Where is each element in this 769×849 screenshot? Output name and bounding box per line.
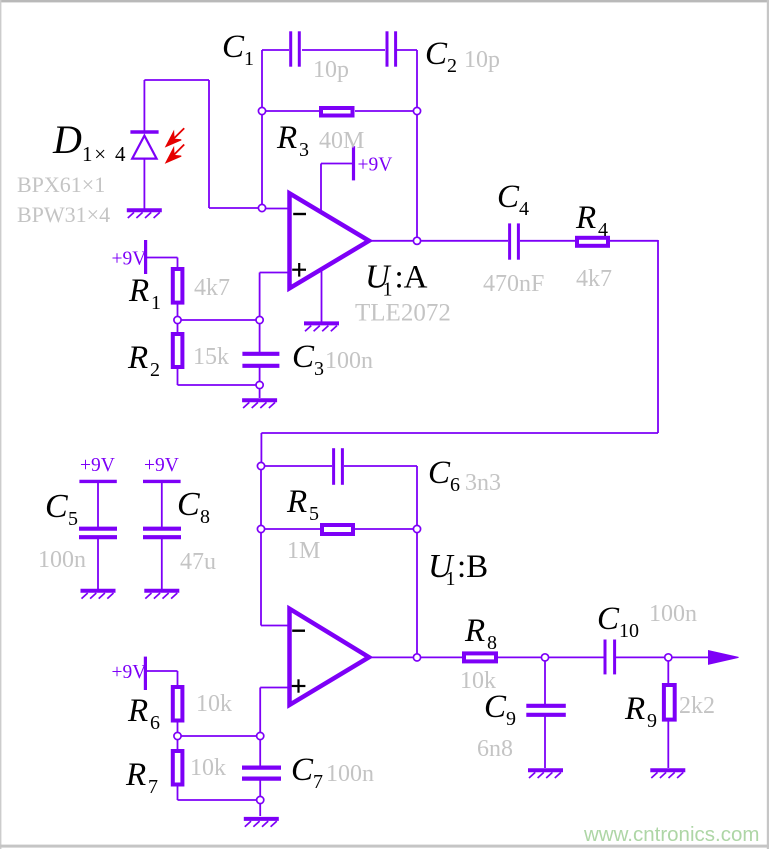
- wire: +9V to op-amp top: [321, 163, 352, 165]
- junction node C3 bottom: [256, 381, 263, 388]
- svg-text:40M: 40M: [319, 128, 364, 154]
- svg-text:3n3: 3n3: [465, 470, 501, 496]
- resistor R2 (15k) body: [173, 334, 183, 367]
- wire: R9 bottom to ground: [667, 720, 669, 768]
- wire: photodiode top horizontal: [144, 79, 209, 81]
- svg-text:BPW31×4: BPW31×4: [17, 202, 110, 227]
- wire: R8 to C9 node: [497, 656, 604, 658]
- junction node C6 left: [257, 462, 264, 469]
- svg-text:5: 5: [309, 503, 319, 525]
- svg-text:C: C: [291, 752, 314, 788]
- junction node op-amp A output: [413, 237, 420, 244]
- wire: photodiode cathode up: [143, 80, 145, 131]
- frame border left: [0, 0, 1, 849]
- photodiode D1x4 triangle: [132, 136, 156, 159]
- wire: divider node B up to plus input: [259, 688, 261, 737]
- junction node R5 right: [413, 525, 420, 532]
- junction node C7 bottom: [257, 796, 264, 803]
- ground under C7: [244, 817, 279, 821]
- svg-text:R: R: [624, 691, 645, 727]
- output arrow: [709, 651, 739, 665]
- svg-text:D: D: [52, 117, 82, 162]
- wire: C5 top: [97, 481, 99, 528]
- wire: top feedback row right segment: [397, 49, 417, 51]
- +9V power bar for C5: [79, 480, 116, 483]
- wire: divider node down to C3: [259, 320, 261, 352]
- junction node R9: [665, 654, 672, 661]
- svg-text:1× 4: 1× 4: [82, 142, 127, 166]
- svg-text:7: 7: [148, 776, 158, 798]
- svg-text:R: R: [128, 273, 149, 309]
- svg-text:BPX61×1: BPX61×1: [17, 172, 105, 197]
- junction node R1-R2: [174, 316, 181, 323]
- wire: R5 row right: [354, 528, 417, 530]
- svg-text:9: 9: [506, 708, 516, 730]
- red light arrow 2: [174, 145, 184, 155]
- resistor R4 (4k7) body: [577, 238, 608, 246]
- svg-text:C: C: [45, 488, 68, 525]
- svg-text:100n: 100n: [38, 547, 86, 573]
- junction node R3 row right: [413, 107, 420, 114]
- wire: +9V bar to R1 top: [147, 257, 178, 259]
- svg-text:+9V: +9V: [112, 662, 147, 683]
- wire: divider row B to C7 node: [178, 735, 261, 737]
- svg-text:8: 8: [200, 506, 210, 528]
- svg-text:C: C: [484, 689, 507, 725]
- op-amp U1:A plus pin mark: [292, 269, 306, 271]
- svg-text:www.cntronics.com: www.cntronics.com: [583, 823, 759, 846]
- svg-text:C: C: [497, 179, 520, 215]
- svg-text:C: C: [177, 486, 200, 523]
- svg-text:4: 4: [598, 219, 608, 241]
- svg-text::A: :A: [395, 260, 428, 296]
- wire: C6 row left: [261, 465, 332, 467]
- wire: C5 bottom to ground: [97, 537, 99, 589]
- svg-text:1: 1: [446, 568, 456, 590]
- svg-text:10: 10: [619, 620, 639, 642]
- wire: C9 bottom to ground: [544, 715, 546, 768]
- svg-text:6n8: 6n8: [477, 736, 513, 762]
- svg-text:2: 2: [447, 55, 457, 77]
- svg-text:R: R: [276, 120, 297, 156]
- ground under C5: [81, 589, 116, 593]
- junction node R3 row left: [258, 107, 265, 114]
- svg-text:100n: 100n: [649, 601, 697, 627]
- svg-text:6: 6: [450, 474, 460, 496]
- ground under op-amp U1:A: [304, 321, 339, 325]
- svg-text:15k: 15k: [193, 344, 229, 370]
- +9V power bar for R6: [144, 657, 147, 690]
- ground under photodiode: [127, 208, 162, 212]
- ground under C3: [242, 398, 277, 402]
- svg-text:6: 6: [150, 712, 160, 734]
- op-amp U1:B triangle: [290, 609, 370, 705]
- wire: R3 row left segment: [262, 110, 319, 112]
- svg-text:R: R: [575, 200, 596, 236]
- svg-text:R: R: [464, 613, 485, 649]
- svg-text:R: R: [127, 340, 148, 376]
- wire: long horizontal to stage 2 input: [261, 432, 658, 434]
- wire: right vertical C2 row down to output node: [416, 50, 418, 241]
- capacitor C5 (100n) plates: [79, 527, 117, 531]
- svg-text:C: C: [425, 36, 448, 72]
- svg-text:R: R: [286, 484, 307, 520]
- wire: +9V bar to R6 top: [147, 670, 178, 672]
- svg-text:1M: 1M: [287, 538, 320, 564]
- wire: node A to op-amp inverting input: [262, 208, 290, 210]
- ground under C9: [528, 768, 563, 772]
- wire: left vertical C6 to R5: [260, 466, 262, 529]
- svg-text:10p: 10p: [464, 47, 500, 73]
- wire: op-amp U1:A bottom to ground: [321, 269, 323, 323]
- wire: C8 bottom to ground: [161, 537, 163, 589]
- ground under R9: [650, 768, 685, 772]
- wire: R2 bottom right to C3 ground node: [178, 384, 260, 386]
- svg-text:R: R: [127, 693, 148, 729]
- svg-text:4k7: 4k7: [576, 266, 612, 292]
- op-amp U1:B minus pin mark: [292, 630, 305, 632]
- capacitor C7 (100n) plates: [242, 765, 281, 769]
- junction node op-amp B output: [413, 654, 420, 661]
- wire: to op-amp B inverting input: [261, 625, 290, 627]
- wire: C8 top: [161, 481, 163, 528]
- wire: right vertical drop to stage 2: [657, 240, 659, 433]
- capacitor C2 (10p) symbol: [386, 31, 389, 66]
- op-amp U1:B plus pin mark: [292, 685, 306, 687]
- svg-text:1: 1: [151, 292, 161, 314]
- wire: R9 node down: [667, 657, 669, 684]
- resistor R6 (10k) body: [173, 687, 183, 721]
- wire: into node A: [209, 207, 262, 209]
- capacitor C9 (6n8) plates: [526, 704, 566, 708]
- wire: R1 bottom to divider node: [177, 305, 179, 334]
- +9V power bar for U1:A: [352, 146, 355, 180]
- wire: op-amp B output to R8: [369, 656, 466, 658]
- resistor R3 (40M) body: [321, 108, 353, 116]
- svg-text:C: C: [222, 29, 245, 65]
- svg-text:2k2: 2k2: [679, 693, 715, 719]
- svg-text:7: 7: [313, 771, 323, 793]
- wire: R4 to right corner: [609, 240, 658, 242]
- svg-text:4k7: 4k7: [194, 275, 230, 301]
- +9V power bar for R1: [144, 240, 147, 274]
- svg-text:R: R: [125, 757, 146, 793]
- wire: left vertical C1 row to node A: [261, 50, 263, 208]
- wire: C9 node down: [544, 657, 546, 704]
- wire: C10 to output node: [616, 656, 710, 658]
- svg-text:3: 3: [299, 139, 309, 161]
- svg-text:9: 9: [647, 710, 657, 732]
- svg-text:10k: 10k: [190, 755, 226, 781]
- svg-text:TLE2072: TLE2072: [355, 300, 451, 327]
- resistor R8 (10k) body: [464, 653, 496, 661]
- wire: top feedback row left segment: [262, 49, 289, 51]
- wire: right vertical C6 to R5: [416, 466, 418, 529]
- svg-text:+9V: +9V: [80, 455, 115, 476]
- wire: R6 bottom to divider node B: [177, 721, 179, 750]
- wire: divider node B down to C7: [259, 736, 261, 766]
- frame border bottom: [0, 845, 769, 848]
- svg-text:C: C: [292, 339, 315, 375]
- capacitor C3 (100n) plates: [242, 352, 279, 356]
- capacitor C4 (470nF) symbol: [508, 223, 511, 259]
- wire: divider node up to plus input: [259, 273, 261, 321]
- wire: left vertical to inverting input B: [260, 529, 262, 626]
- +9V power bar for C8: [143, 480, 181, 483]
- red light arrow 1: [174, 128, 184, 138]
- wire: C4 to R4: [520, 240, 576, 242]
- svg-text:8: 8: [487, 632, 497, 654]
- svg-text:1: 1: [244, 48, 254, 70]
- svg-text::B: :B: [457, 549, 488, 585]
- wire: C6 row right: [344, 465, 417, 467]
- wire: photodiode anode down: [143, 159, 145, 209]
- capacitor C8 (47u) plates: [143, 527, 181, 531]
- junction node divider B - C7: [257, 732, 264, 739]
- wire: R7 bottom down: [177, 785, 179, 800]
- frame border top: [0, 0, 769, 2]
- wire: vertical down to inverting node: [208, 80, 210, 208]
- frame border right: [767, 0, 769, 849]
- wire: right vertical R5 to output node B: [416, 529, 418, 657]
- resistor R5 (1M) body: [322, 525, 353, 534]
- svg-text:1: 1: [383, 279, 393, 301]
- svg-text:5: 5: [68, 508, 78, 530]
- wire: op-amp output to C4: [369, 240, 508, 242]
- resistor R7 (10k) body: [173, 751, 183, 785]
- svg-text:10k: 10k: [196, 691, 232, 717]
- junction node divider-C3 top: [256, 316, 263, 323]
- capacitor C6 (3n3) symbol: [332, 448, 335, 485]
- op-amp U1:A minus pin mark: [293, 213, 306, 215]
- svg-text:100n: 100n: [325, 348, 373, 374]
- wire: R2 bottom down: [177, 369, 179, 385]
- junction node R5 left: [257, 525, 264, 532]
- wire: divider row to C3 node: [178, 319, 260, 321]
- svg-text:47u: 47u: [180, 549, 216, 575]
- capacitor C1 (10p) symbol: [289, 31, 292, 66]
- resistor R1 (4k7) body: [173, 269, 183, 303]
- wire: C3 bottom to ground node: [259, 366, 261, 398]
- svg-text:+9V: +9V: [112, 249, 147, 270]
- wire: down into stage 2 node: [260, 433, 262, 466]
- op-amp U1:A triangle: [290, 193, 370, 288]
- wire: R7 bottom right to C7 ground node: [178, 799, 261, 801]
- svg-text:C: C: [428, 455, 451, 491]
- svg-text:+9V: +9V: [358, 155, 393, 176]
- svg-text:10p: 10p: [313, 57, 349, 83]
- capacitor C10 (100n) symbol: [604, 640, 607, 675]
- photodiode D1x4 cathode bar: [130, 130, 158, 133]
- svg-text:+9V: +9V: [144, 455, 179, 476]
- wire: R3 row right segment: [355, 110, 417, 112]
- ground under C8: [144, 589, 179, 593]
- junction node A inverting input: [258, 204, 265, 211]
- wire: C7 bottom to ground node: [259, 779, 261, 816]
- svg-text:470nF: 470nF: [483, 271, 544, 297]
- svg-text:3: 3: [314, 358, 324, 380]
- svg-text:4: 4: [519, 198, 529, 220]
- resistor R9 (2k2) body: [664, 685, 675, 720]
- junction node R6-R7: [174, 732, 181, 739]
- wire: R5 row left: [261, 528, 322, 530]
- svg-text:C: C: [597, 601, 620, 637]
- svg-text:2: 2: [150, 359, 160, 381]
- wire: top feedback row middle segment: [302, 49, 385, 51]
- svg-text:100n: 100n: [326, 761, 374, 787]
- junction node C9: [541, 654, 548, 661]
